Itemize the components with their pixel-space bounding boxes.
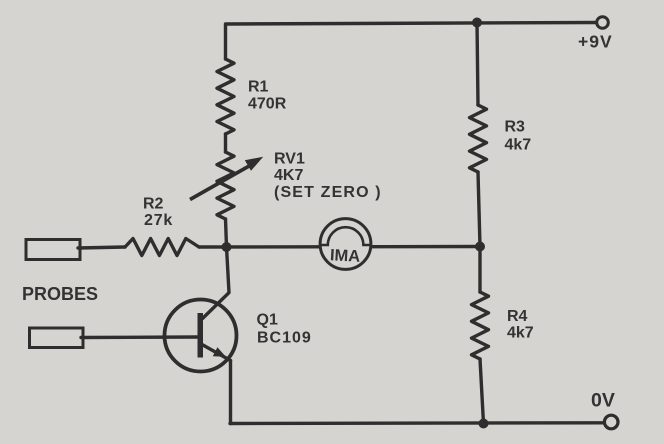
svg-text:4k7: 4k7	[505, 137, 532, 154]
resistor R4	[472, 292, 489, 359]
svg-text:4k7: 4k7	[507, 325, 534, 342]
potentiometer RV1	[217, 152, 234, 219]
wire RV1 to node	[226, 219, 227, 247]
resistor R1	[217, 59, 234, 134]
wire R3 lower lead	[478, 172, 480, 247]
node A top junction	[472, 18, 482, 28]
wire R4 upper lead	[478, 247, 481, 293]
terminal +9V	[597, 17, 609, 29]
node B R2/collector junction	[222, 242, 232, 252]
transistor Q1 body	[165, 300, 237, 372]
wire emitter of Q1	[202, 345, 231, 361]
RV1 wiper arrow	[190, 166, 250, 200]
probe terminal 2	[30, 328, 84, 348]
wire probe1 to R2	[78, 247, 125, 248]
svg-text:0V: 0V	[591, 390, 615, 412]
wire R4 to 0V rail	[480, 359, 484, 424]
svg-text:R2: R2	[143, 196, 164, 213]
svg-text:+9V: +9V	[578, 32, 613, 52]
svg-text:BC109: BC109	[257, 330, 312, 347]
svg-text:470R: 470R	[248, 96, 287, 113]
wire probe2 to Q1 base	[81, 335, 199, 339]
probe terminal 1	[26, 240, 80, 260]
terminal 0V	[604, 415, 618, 429]
wire bottom rail 0V	[230, 421, 605, 425]
wire R3 branch top	[477, 23, 478, 106]
svg-text:R3: R3	[505, 119, 526, 136]
svg-text:Q1: Q1	[257, 312, 278, 329]
wire between R1 and RV1	[224, 134, 227, 152]
node D bottom junction	[479, 419, 489, 429]
svg-text:RV1: RV1	[274, 151, 305, 168]
wire R2 to meter node	[199, 245, 480, 249]
svg-text:PROBES: PROBES	[22, 284, 98, 304]
meter M1 body	[320, 219, 371, 270]
transistor Q1 base bar	[198, 313, 204, 358]
wire top rail +9V	[226, 23, 597, 60]
svg-text:IMA: IMA	[329, 246, 360, 266]
resistor R3	[470, 105, 487, 172]
transistor Q1 emitter arrowhead	[213, 347, 226, 357]
node C meter/R3/R4 junction	[475, 242, 485, 252]
svg-text:(SET ZERO ): (SET ZERO )	[274, 184, 382, 201]
svg-text:R1: R1	[248, 79, 269, 96]
meter M1 inner scale arc	[321, 227, 371, 245]
wire emitter to 0V rail	[229, 361, 232, 424]
svg-text:27k: 27k	[144, 212, 173, 229]
wire collector of Q1 to node	[203, 247, 230, 319]
svg-text:4K7: 4K7	[274, 167, 303, 184]
svg-text:R4: R4	[507, 308, 528, 325]
resistor R2	[125, 239, 199, 256]
